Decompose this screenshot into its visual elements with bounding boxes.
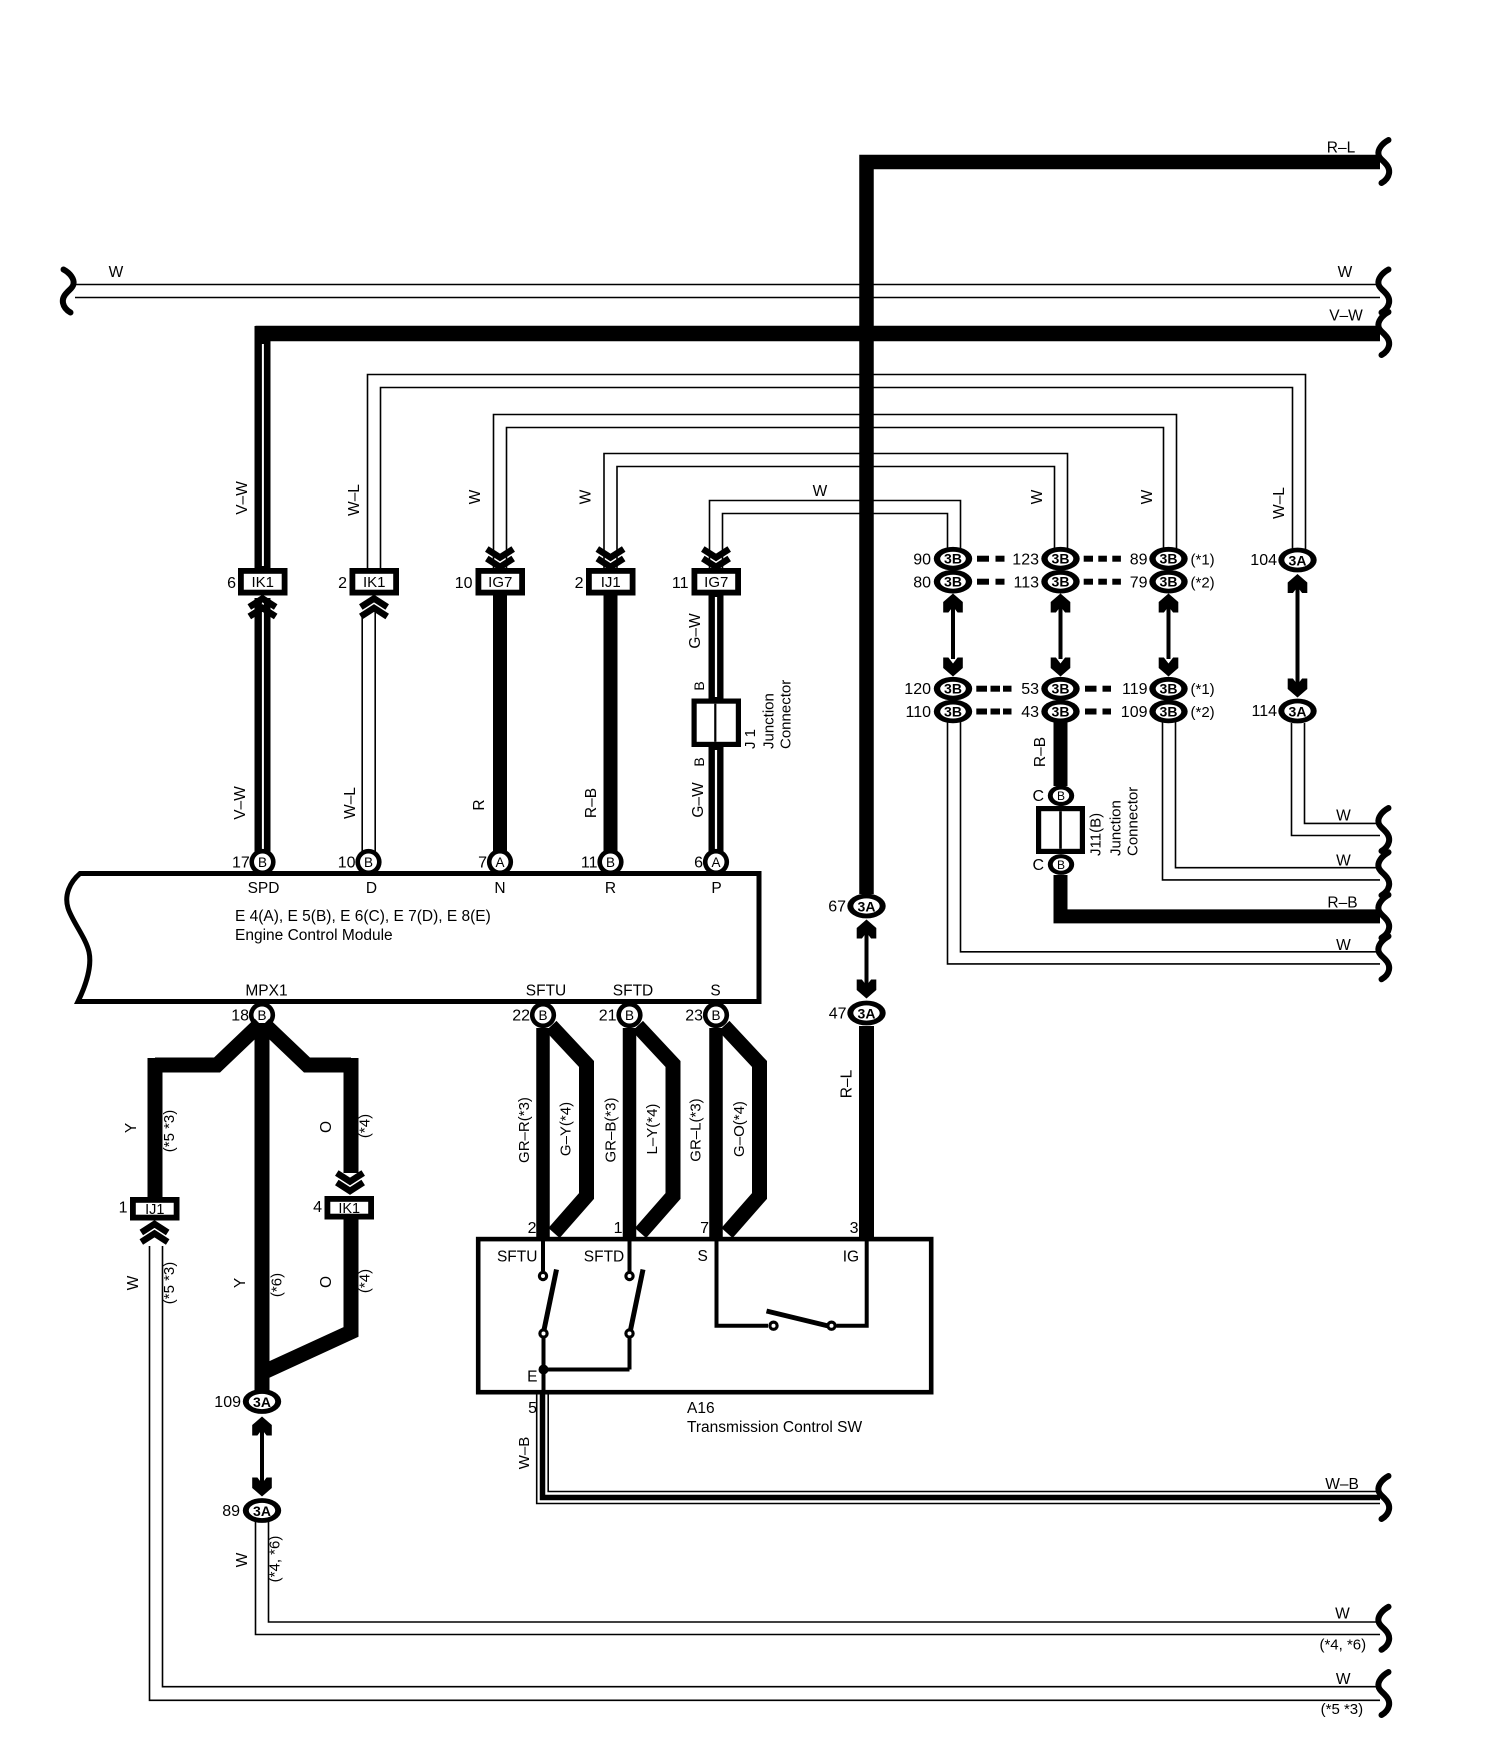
wire V-W vertical (striped) down to connector 6 IK1 [234, 326, 263, 570]
connector 90 3B [913, 547, 972, 571]
connector 109 3A [214, 1389, 281, 1414]
svg-text:B: B [625, 1008, 634, 1023]
svg-text:B: B [691, 681, 707, 690]
svg-text:3: 3 [850, 1220, 859, 1237]
svg-text:5: 5 [528, 1400, 537, 1417]
svg-text:W: W [1139, 489, 1156, 504]
svg-text:4: 4 [313, 1199, 322, 1216]
wire G–Y(*4) bowed from pin 543 [551, 1026, 587, 1233]
svg-text:79: 79 [1130, 575, 1148, 592]
dashes row1 right [1084, 556, 1121, 562]
svg-text:(*4, *6): (*4, *6) [1319, 1637, 1366, 1654]
svg-text:IK1: IK1 [338, 1201, 360, 1217]
svg-text:2: 2 [575, 575, 584, 592]
svg-text:W: W [578, 489, 595, 504]
svg-text:SFTD: SFTD [613, 983, 653, 1000]
wire W horizontal full-width [75, 264, 1380, 298]
svg-text:3B: 3B [1160, 681, 1178, 697]
ECM pin 17 B (SPD) [232, 849, 279, 897]
wire R-B from 43 3B to J11 [1032, 721, 1061, 786]
svg-text:W: W [125, 1275, 142, 1290]
svg-text:V–W: V–W [234, 481, 251, 515]
wire Y branch to 1 IJ1 [123, 1024, 260, 1198]
svg-text:Engine Control Module: Engine Control Module [235, 927, 393, 944]
svg-text:IJ1: IJ1 [145, 1202, 164, 1218]
brace W bottom (*4,*6) [1378, 1607, 1389, 1650]
svg-text:3A: 3A [858, 898, 876, 914]
svg-text:D: D [366, 880, 377, 897]
svg-text:SPD: SPD [248, 880, 280, 897]
svg-text:B: B [606, 855, 615, 870]
wire W loop: connector 2 IJ1 up, right, down to 123 3B [578, 454, 1068, 571]
svg-text:R–L: R–L [1327, 140, 1356, 157]
svg-text:3A: 3A [253, 1503, 271, 1519]
svg-text:W–L: W–L [342, 787, 359, 819]
dashes row2 left [977, 579, 1005, 585]
svg-text:W–B: W–B [1325, 1476, 1359, 1493]
connector 104 3A [1250, 548, 1316, 573]
connector 6 IK1 [227, 568, 287, 596]
arrow down into 2 IJ1 [597, 549, 623, 567]
connector 119 3B [1122, 677, 1215, 701]
svg-text:47: 47 [829, 1006, 847, 1023]
arrow down into 10 IG7 [487, 549, 513, 567]
arrow up into 2 IK1 [361, 599, 387, 617]
svg-text:IG: IG [843, 1249, 859, 1266]
svg-text:G–Y(*4): G–Y(*4) [558, 1102, 575, 1156]
connector 120 3B [904, 677, 972, 701]
svg-text:109: 109 [1121, 704, 1148, 721]
svg-text:11: 11 [672, 575, 689, 592]
wire W-L pin10 to 2 IK1 [342, 612, 375, 852]
svg-text:W: W [1336, 808, 1351, 825]
dashes row4 right [1085, 709, 1111, 715]
junction connector J11(B) [1032, 785, 1085, 875]
wire W from 114 3A to right continuation [1292, 723, 1381, 836]
ECM pin 23 B (S) [685, 983, 729, 1029]
ECM pin 6 A (P) [694, 849, 729, 897]
svg-text:119: 119 [1122, 681, 1148, 698]
transmission control SW box A16 [478, 1239, 931, 1436]
connector 79 3B [1130, 570, 1215, 594]
svg-text:2: 2 [528, 1220, 537, 1237]
svg-text:3A: 3A [1289, 703, 1307, 719]
arrow link 80-120 [943, 594, 963, 677]
svg-text:11: 11 [581, 855, 598, 872]
dashes row4 left [976, 709, 1011, 715]
A16 pin numbers [528, 1220, 859, 1237]
svg-text:6: 6 [694, 855, 703, 872]
arrow up into 6 IK1 [249, 599, 275, 617]
svg-text:S: S [710, 983, 720, 1000]
svg-text:S: S [698, 1248, 708, 1265]
svg-text:GR–R(*3): GR–R(*3) [516, 1097, 533, 1163]
svg-text:3A: 3A [1289, 552, 1307, 568]
svg-text:18: 18 [231, 1008, 249, 1025]
svg-text:C: C [1032, 857, 1044, 874]
brace R-L top right [1378, 140, 1389, 183]
dashes row1 left [977, 556, 1005, 562]
svg-text:109: 109 [214, 1394, 241, 1411]
connector 1 IJ1 [119, 1197, 180, 1221]
svg-text:3B: 3B [1160, 574, 1178, 590]
svg-text:V–W: V–W [1329, 308, 1363, 325]
svg-text:89: 89 [222, 1503, 240, 1520]
svg-text:110: 110 [905, 704, 931, 721]
svg-text:IG7: IG7 [704, 574, 728, 591]
svg-text:IK1: IK1 [363, 574, 386, 591]
svg-text:B: B [691, 757, 707, 766]
svg-text:Connector: Connector [778, 680, 795, 749]
svg-text:3B: 3B [1052, 551, 1070, 567]
svg-text:B: B [538, 1008, 547, 1023]
svg-text:123: 123 [1012, 552, 1039, 569]
svg-text:W: W [813, 483, 828, 500]
svg-text:3A: 3A [858, 1005, 876, 1021]
svg-text:23: 23 [685, 1008, 703, 1025]
svg-text:3B: 3B [944, 574, 962, 590]
wire V-W horizontal thick [256, 308, 1381, 334]
wire G-W pin6 to J1 (striped) [690, 747, 716, 852]
wire R-L from 47 3A to A16 pin 3 [839, 1026, 867, 1240]
svg-text:R–B: R–B [583, 788, 600, 818]
svg-text:89: 89 [1130, 552, 1148, 569]
wire W loop: connector 11 IG7 up, right, down to 90 3B [710, 483, 961, 570]
svg-text:GR–B(*3): GR–B(*3) [603, 1097, 620, 1162]
svg-text:W: W [1336, 1671, 1351, 1688]
svg-text:21: 21 [599, 1008, 617, 1025]
wire O below 4 IK1 merging into trunk [266, 1219, 374, 1371]
wire R pin7 to 10 IG7 [471, 595, 500, 852]
brace W left [63, 270, 74, 313]
svg-text:A: A [495, 855, 504, 870]
svg-text:W: W [1336, 937, 1351, 954]
arrow link 79-119 [1159, 594, 1179, 677]
svg-text:(*5 *3): (*5 *3) [161, 1262, 178, 1305]
dashes row3 left [976, 686, 1011, 692]
ECM pin 22 B (SFTU) [512, 983, 566, 1029]
wire G–O(*4) bowed from pin 716 [724, 1026, 760, 1233]
connector 2 IK1 [338, 568, 399, 596]
svg-text:GR–L(*3): GR–L(*3) [688, 1098, 705, 1161]
svg-text:V–W: V–W [232, 786, 249, 820]
wire W from 89 3A to bottom continuation (*4,*6) [234, 1522, 1380, 1654]
svg-text:J11(B): J11(B) [1088, 813, 1105, 856]
ECM pin 10 B (D) [338, 849, 382, 897]
svg-text:W: W [467, 489, 484, 504]
svg-text:R: R [605, 880, 616, 897]
label J 1 Junction Connector [742, 680, 795, 749]
svg-text:104: 104 [1250, 552, 1277, 569]
svg-text:114: 114 [1251, 703, 1277, 720]
svg-text:E: E [527, 1369, 537, 1386]
brace W right (from 110) [1378, 936, 1389, 979]
svg-text:(*5 *3): (*5 *3) [1321, 1701, 1364, 1718]
svg-text:3B: 3B [1160, 551, 1178, 567]
svg-text:3B: 3B [944, 551, 962, 567]
svg-text:SFTU: SFTU [497, 1249, 537, 1266]
connector 2 IJ1 [575, 568, 636, 596]
svg-text:1: 1 [119, 1200, 128, 1217]
wire GR–L(*3) straight from pin 716 [688, 1028, 717, 1240]
svg-text:W: W [1336, 853, 1351, 870]
svg-text:22: 22 [512, 1008, 530, 1025]
brace W bottom (*5 *3) [1378, 1672, 1389, 1715]
svg-text:17: 17 [232, 855, 250, 872]
svg-text:3B: 3B [1052, 574, 1070, 590]
brace W right [1378, 270, 1389, 313]
svg-text:(*4, *6): (*4, *6) [267, 1536, 284, 1583]
svg-text:1: 1 [614, 1220, 623, 1237]
arrow down into 11 IG7 [703, 549, 729, 567]
connector 67 3A [828, 894, 885, 919]
SFTD switch [624, 1241, 643, 1370]
svg-text:W: W [1029, 489, 1046, 504]
svg-text:B: B [257, 1008, 266, 1023]
svg-text:R: R [471, 799, 488, 810]
svg-text:Connector: Connector [1125, 787, 1142, 856]
svg-text:Y: Y [123, 1123, 140, 1133]
ECM pin 18 B (MPX1) [231, 983, 287, 1029]
dashes row2 right [1084, 579, 1121, 585]
engine control module box [67, 874, 759, 1002]
svg-text:7: 7 [478, 855, 487, 872]
svg-text:(*4): (*4) [357, 1269, 374, 1293]
junction connector J1 [692, 699, 742, 748]
svg-text:3A: 3A [253, 1394, 271, 1410]
wire GR–R(*3) straight from pin 543 [516, 1028, 543, 1240]
connector 80 3B [913, 570, 972, 594]
connector 10 IG7 [455, 568, 525, 596]
connector 114 3A [1251, 699, 1316, 724]
arrow link 109-89 [252, 1417, 272, 1497]
wire R-B pin11 to 2 IJ1 [583, 595, 611, 852]
svg-text:10: 10 [455, 575, 473, 592]
svg-text:B: B [258, 855, 267, 870]
arrow up out of 1 IJ1 [141, 1224, 167, 1242]
svg-text:G–W: G–W [690, 782, 707, 818]
svg-text:2: 2 [338, 575, 347, 592]
connector 123 3B [1012, 547, 1079, 571]
svg-text:(*5 *3): (*5 *3) [161, 1110, 178, 1153]
svg-text:53: 53 [1021, 681, 1039, 698]
brace W-B right [1378, 1476, 1389, 1519]
brace W right (from 109) [1378, 852, 1389, 895]
connector 43 3B [1021, 700, 1079, 724]
svg-text:7: 7 [700, 1220, 709, 1237]
wire G-W J1 to 11 IG7 (striped) [687, 595, 716, 699]
arrow link 104-114 [1288, 574, 1308, 698]
arrow down into 4 IK1 [337, 1173, 363, 1191]
svg-text:SFTD: SFTD [584, 1249, 624, 1266]
brace V-W right [1378, 312, 1389, 355]
svg-text:Junction: Junction [761, 693, 778, 749]
svg-text:90: 90 [913, 552, 931, 569]
svg-text:(*6): (*6) [269, 1273, 286, 1297]
svg-text:L–Y(*4): L–Y(*4) [644, 1104, 661, 1155]
svg-text:Y: Y [232, 1278, 249, 1288]
wire V-W pin17 to 6 IK1 (striped) [232, 598, 263, 852]
svg-text:Junction: Junction [1108, 800, 1125, 856]
svg-text:R–L: R–L [839, 1069, 856, 1098]
connector 109 3B [1121, 700, 1215, 724]
svg-text:80: 80 [913, 575, 931, 592]
svg-text:W–L: W–L [346, 484, 363, 516]
arrow link 113-53 [1051, 594, 1071, 677]
svg-text:(*1): (*1) [1191, 552, 1215, 569]
label J11(B) Junction Connector [1088, 787, 1142, 856]
wire R-L (thick) from node to top-right continuation [867, 140, 1381, 895]
connector 47 3A [829, 1001, 886, 1026]
svg-text:P: P [711, 880, 721, 897]
wire W loop: connector 10 IG7 up, right, down to 89 3B [467, 415, 1177, 571]
svg-text:G–O(*4): G–O(*4) [731, 1101, 748, 1157]
wire W from 1 IJ1 to bottom continuation (*5 *3) [125, 1246, 1380, 1718]
wire W-B from A16 pin 5 to right continuation [516, 1394, 1380, 1504]
svg-text:(*2): (*2) [1191, 704, 1215, 721]
svg-text:C: C [1032, 788, 1044, 805]
svg-text:MPX1: MPX1 [245, 983, 287, 1000]
svg-text:R–B: R–B [1327, 895, 1357, 912]
svg-text:IJ1: IJ1 [601, 574, 621, 591]
svg-text:IG7: IG7 [488, 574, 512, 591]
wire R-B from J11 to right continuation [1061, 875, 1381, 916]
svg-text:W–L: W–L [1271, 487, 1288, 519]
node E junction [527, 1365, 629, 1386]
svg-text:3B: 3B [944, 681, 962, 697]
svg-text:J 1: J 1 [742, 729, 759, 749]
svg-text:6: 6 [227, 575, 236, 592]
svg-text:R–B: R–B [1032, 737, 1049, 767]
wire O branch to 4 IK1 [264, 1024, 374, 1173]
connector 53 3B [1021, 677, 1079, 701]
A16 terminal labels [497, 1248, 859, 1266]
svg-text:B: B [711, 1008, 720, 1023]
wire R-L from top into 67 3A [0, 0, 1, 1]
connector 113 3B [1013, 570, 1079, 594]
ECM pin 21 B (SFTD) [599, 983, 654, 1029]
SFTU switch [538, 1241, 557, 1394]
svg-text:(*2): (*2) [1191, 575, 1215, 592]
svg-text:B: B [1057, 789, 1065, 803]
svg-text:(*4): (*4) [357, 1114, 374, 1138]
svg-text:IK1: IK1 [251, 574, 274, 591]
label Y (*6) on trunk [232, 1273, 286, 1297]
svg-text:G–W: G–W [687, 613, 704, 649]
wire W from 110 3B to right continuation [948, 722, 1381, 964]
svg-text:O: O [318, 1121, 335, 1133]
svg-text:10: 10 [338, 855, 356, 872]
svg-text:113: 113 [1013, 575, 1039, 592]
svg-text:43: 43 [1021, 704, 1039, 721]
svg-text:W: W [1335, 1606, 1350, 1623]
svg-text:3B: 3B [1052, 704, 1070, 720]
connector 89 3B [1130, 547, 1215, 571]
wire GR–B(*3) straight from pin 629.5 [603, 1028, 630, 1240]
connector 11 IG7 [672, 568, 741, 596]
dashes row3 right [1085, 686, 1111, 692]
svg-text:Transmission Control SW: Transmission Control SW [687, 1419, 863, 1436]
svg-text:W: W [109, 264, 124, 281]
svg-text:W: W [234, 1552, 251, 1567]
wire MPX1 trunk (18B down to 109 3A) [255, 1023, 270, 1390]
brace W right (from 114) [1378, 808, 1389, 851]
svg-text:W–B: W–B [516, 1437, 533, 1470]
svg-text:120: 120 [904, 681, 931, 698]
svg-text:SFTU: SFTU [526, 983, 566, 1000]
connector 89 3A [222, 1498, 281, 1523]
svg-text:3B: 3B [1052, 681, 1070, 697]
svg-text:E 4(A), E 5(B), E 6(C), E 7(D): E 4(A), E 5(B), E 6(C), E 7(D), E 8(E) [235, 908, 491, 925]
connector 4 IK1 [313, 1196, 374, 1220]
svg-text:O: O [318, 1276, 335, 1288]
connector 110 3B [905, 700, 972, 724]
wire W from 109 3B to right continuation [1163, 722, 1381, 880]
wire L–Y(*4) bowed from pin 629.5 [638, 1026, 674, 1233]
svg-text:B: B [364, 855, 373, 870]
svg-text:W: W [1338, 264, 1353, 281]
wire W-L loop: connector 2 IK1 up, right, down to 104 3A [346, 375, 1306, 571]
svg-text:A: A [711, 855, 720, 870]
svg-text:(*1): (*1) [1191, 681, 1215, 698]
svg-text:N: N [494, 880, 505, 897]
svg-text:A16: A16 [687, 1400, 715, 1417]
svg-text:67: 67 [828, 899, 846, 916]
ECM pin 11 B (R) [581, 849, 624, 897]
svg-text:3B: 3B [944, 704, 962, 720]
arrow link 67-47 [857, 920, 877, 999]
svg-text:B: B [1057, 858, 1065, 872]
ECM pin 7 A (N) [478, 849, 513, 897]
IG switch net [717, 1241, 867, 1331]
svg-text:3B: 3B [1160, 704, 1178, 720]
brace R-B right [1378, 895, 1389, 938]
